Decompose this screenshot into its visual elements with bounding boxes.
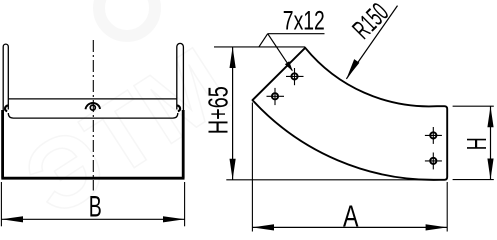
dimension B extension line right [184, 182, 186, 226]
dimension B extension line left [0, 182, 2, 226]
center hole circle [90, 105, 95, 110]
hole lower-left with center mark [267, 88, 285, 105]
dimension H extension line bottom [453, 179, 494, 181]
centerline [92, 40, 94, 191]
arrow B right [163, 216, 185, 222]
R150 arrowhead [346, 59, 359, 79]
7x12 leader to upper hole [268, 34, 293, 71]
arrow B left [1, 216, 23, 222]
right post bottom hook [177, 106, 180, 112]
7x12 underline [268, 33, 325, 35]
arrow H+65 up [230, 47, 236, 68]
dimension H+65 top extension line [214, 46, 305, 48]
arrow A left [252, 224, 274, 230]
arrow H up [487, 106, 493, 127]
right post (side wall) [177, 43, 184, 112]
left post bottom hook [5, 106, 8, 112]
7x12 short leg [259, 34, 268, 47]
R150 leader line [346, 6, 397, 79]
arrow H+65 down [230, 159, 236, 180]
watermark [6, 0, 248, 238]
dimension H line [490, 106, 492, 179]
svg-text:7x12: 7x12 [283, 6, 325, 36]
dimension A extension line left [251, 103, 253, 232]
svg-text:A: A [343, 198, 359, 233]
bottom tangent extension line [226, 179, 446, 181]
left post (side wall) [3, 44, 8, 112]
dimension H+65 line [232, 47, 234, 180]
arrow H down [487, 159, 493, 180]
inner top line (far wall edge) [8, 98, 177, 100]
svg-text:B: B [89, 191, 102, 224]
hole right-bottom with center mark [425, 153, 442, 170]
dimension H extension line top [453, 105, 494, 107]
hole right-top with center mark [425, 127, 442, 144]
svg-text:H+65: H+65 [203, 86, 234, 134]
svg-text:H: H [461, 137, 492, 150]
7x12 leader arrowhead [285, 61, 293, 71]
inner bottom line with fillets [8, 113, 178, 118]
hole upper-left with center mark [286, 68, 304, 85]
dimension A extension line right [446, 182, 448, 232]
arrow A right [426, 224, 448, 230]
dimension A line [252, 226, 447, 228]
dimension B line [1, 218, 184, 220]
center hole eyebrow arc [86, 103, 101, 109]
body outline (thick) [1, 110, 184, 178]
elbow piece outline [253, 48, 448, 180]
